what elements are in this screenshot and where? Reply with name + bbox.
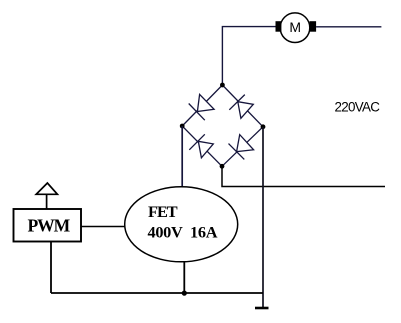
node left of bridge bbox=[180, 124, 185, 129]
node bottom of bridge bbox=[220, 164, 225, 169]
svg-text:220VAC: 220VAC bbox=[335, 100, 381, 115]
diode D1 top-left bbox=[189, 94, 214, 120]
wire PWM ground stub bbox=[50, 242, 52, 294]
wire bridge bottom-right side bbox=[222, 127, 263, 167]
ground bbox=[255, 307, 269, 310]
wire bridge bottom-left side bbox=[182, 126, 222, 166]
wire PWM output to FET gate bbox=[81, 226, 125, 228]
motor U1 bbox=[276, 13, 317, 43]
FET Q1 (ellipse) bbox=[125, 187, 238, 262]
svg-text:PWM: PWM bbox=[28, 216, 71, 236]
wire bridge left node to FET drain bbox=[181, 126, 183, 188]
wire FET source to bottom rail bbox=[183, 262, 185, 294]
wire bridge right node down to ground bbox=[262, 127, 264, 308]
antenna / gate drive input symbol bbox=[36, 183, 57, 209]
node right of bridge bbox=[261, 124, 266, 129]
svg-text:M: M bbox=[289, 19, 301, 35]
wire bottom ground rail bbox=[51, 292, 263, 294]
wire from motor right terminal (220VAC lead) bbox=[316, 26, 381, 28]
diode D2 top-right bbox=[229, 95, 253, 119]
svg-text:FET: FET bbox=[148, 202, 178, 221]
node top of bridge bbox=[220, 83, 225, 88]
diode D3 bottom-left bbox=[189, 134, 213, 158]
wire bridge top-left side bbox=[182, 85, 222, 126]
junction node on ground rail bbox=[182, 291, 187, 296]
wire bridge bottom node to 220VAC lead bbox=[222, 166, 385, 186]
PWM U2 box bbox=[14, 209, 82, 242]
wire bridge top-right side bbox=[222, 85, 263, 127]
wire from motor left terminal to bridge top node bbox=[222, 27, 275, 85]
diode D4 bottom-right bbox=[229, 135, 254, 160]
svg-text:400V 16A: 400V 16A bbox=[148, 223, 218, 242]
